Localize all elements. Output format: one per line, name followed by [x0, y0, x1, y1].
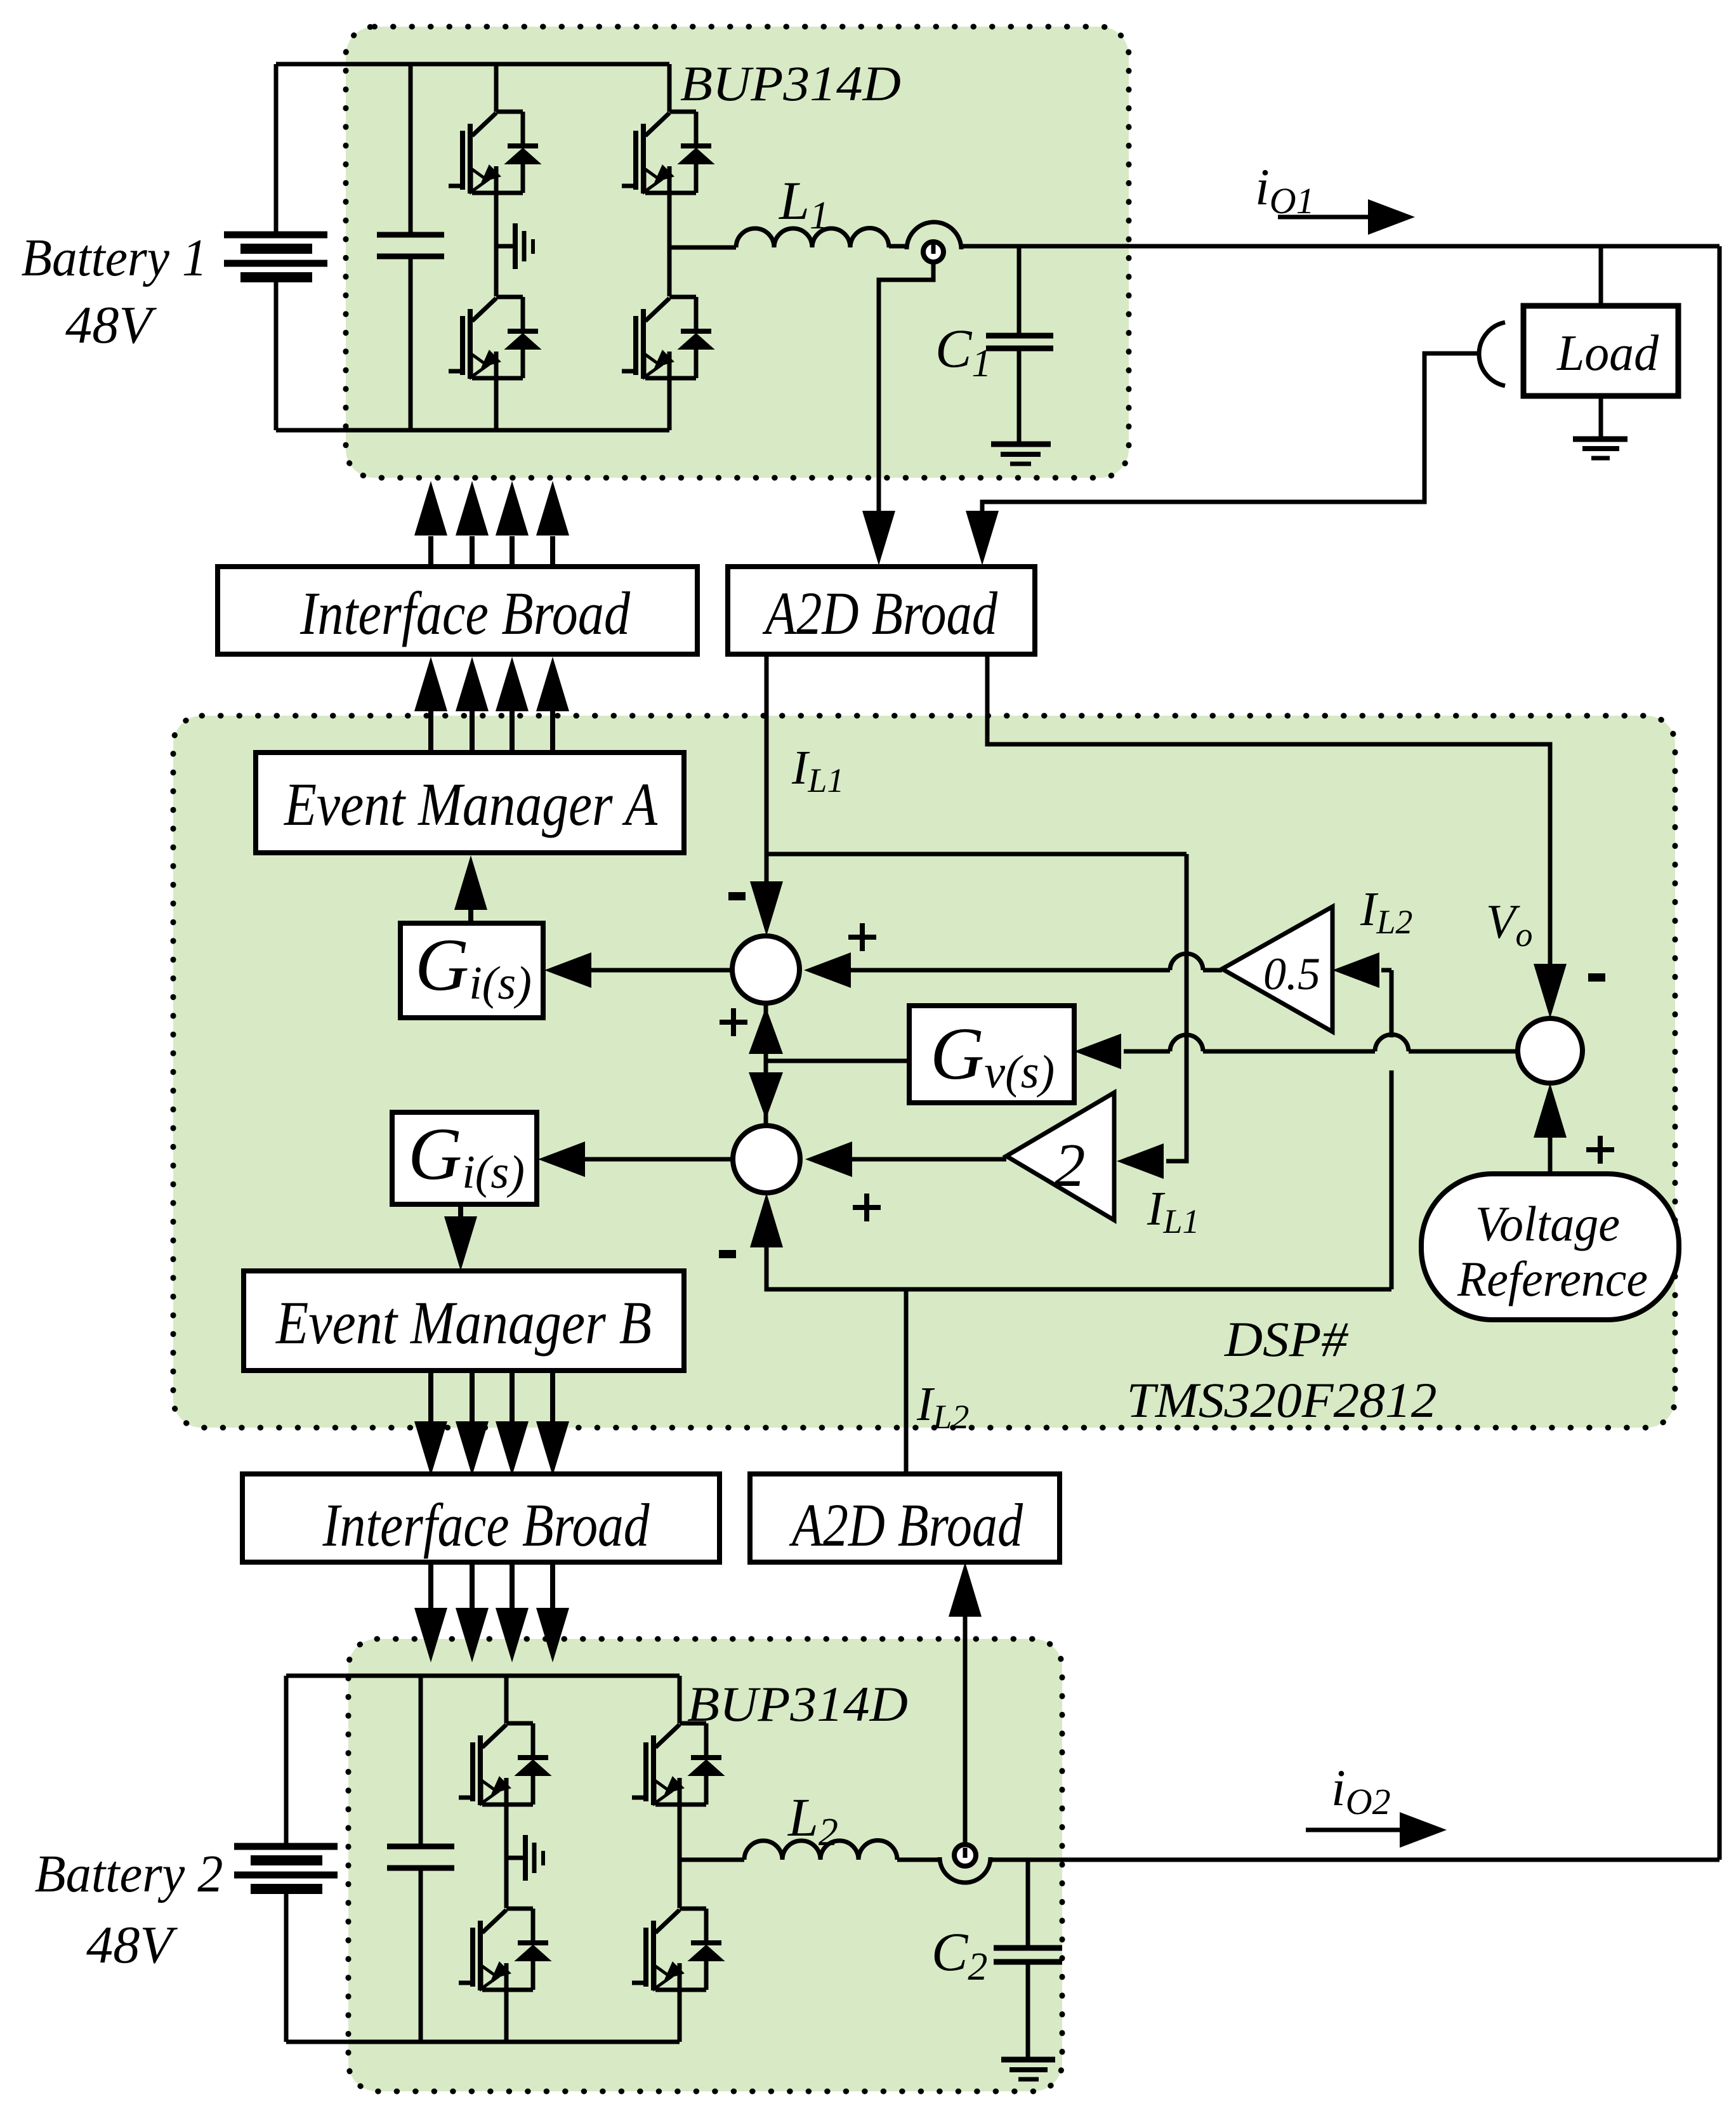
A2D board 2 — [750, 1474, 1060, 1562]
svg-text:A2D Broad: A2D Broad — [762, 579, 998, 647]
transistor Q22 (IGBT, bottom-left) with freewheel diode — [459, 1909, 550, 1990]
sign plus at summing junction 1 bottom — [720, 1008, 747, 1036]
gain block 0.5 — [1222, 907, 1332, 1032]
wire IL1 from A2D board 1 into DSP — [765, 654, 769, 884]
current sensor CS1 — [889, 244, 907, 249]
svg-text:BUP314D: BUP314D — [687, 1676, 908, 1732]
gain block 2 — [1006, 1093, 1114, 1220]
transistor Q13 (IGBT, top-right) with freewheel diode — [622, 112, 713, 194]
arrow iO2 — [1306, 1828, 1400, 1832]
svg-text:2: 2 — [1055, 1131, 1086, 1200]
wire gain 0.5 output to summing junction 1 (with jump) — [851, 968, 1222, 973]
wire right edge (load return) — [1718, 246, 1722, 1860]
dc-link capacitor converter 2 — [387, 1676, 454, 2042]
arrow Gi(s) lower to event manager B — [458, 1204, 463, 1234]
wire voltage reference to summing junction 3 — [1548, 1136, 1553, 1174]
arrow Gi(s) upper to event manager A — [468, 895, 473, 923]
ground (bridge midpoint) converter 2 — [506, 1835, 543, 1881]
ground under C2 — [1001, 2060, 1055, 2079]
DSP dashed module box — [173, 716, 1675, 1428]
ground under C1 — [991, 444, 1051, 464]
summing junction 2 (current loop 2) — [733, 1126, 800, 1193]
transistor Q21 (IGBT, top-left) with freewheel diode — [459, 1723, 550, 1805]
voltage reference stadium — [1421, 1174, 1679, 1320]
wire IL2 from A2D board 2 — [904, 1289, 909, 1474]
arrow iO1 — [1278, 215, 1372, 220]
svg-text:48V: 48V — [65, 296, 157, 355]
inductor L1 — [669, 246, 736, 250]
arrows interface board 1 to converter 1 — [414, 481, 569, 567]
wire converter 1 output rail — [961, 244, 1720, 249]
interface board 1 — [218, 567, 697, 654]
dc-link capacitor converter 1 — [377, 64, 444, 430]
wire gain 2 output to summing junction 2 — [852, 1157, 1006, 1162]
wire IL2 bus (bottom) — [766, 1209, 1391, 1289]
sign minus at summing junction 2 bottom — [719, 1250, 736, 1258]
ground under load — [1573, 439, 1628, 458]
svg-text:Reference: Reference — [1457, 1251, 1648, 1306]
svg-text:48V: 48V — [86, 1916, 178, 1975]
wire left leg converter 1 — [494, 64, 499, 430]
svg-text:Load: Load — [1556, 326, 1659, 381]
summing junction 3 (voltage error) — [1518, 1018, 1582, 1083]
svg-text:Voltage: Voltage — [1475, 1196, 1620, 1251]
sign minus at summing junction 1 top — [728, 892, 746, 900]
svg-text:TMS320F2812: TMS320F2812 — [1127, 1372, 1437, 1428]
transistor Q14 (IGBT, bottom-right) with freewheel diode — [622, 297, 713, 379]
controller Gv(s) box — [909, 1006, 1074, 1103]
current sensor CS2 — [897, 1858, 940, 1862]
ground (bridge midpoint) converter 1 — [496, 223, 533, 269]
transistor Q11 (IGBT, top-left) with freewheel diode — [449, 112, 540, 194]
sign plus at summing junction 2 right — [853, 1194, 881, 1221]
wire error to Gv(s) (with jumps) — [1124, 1049, 1518, 1054]
load box — [1523, 306, 1678, 396]
voltage probe hook at load — [1479, 322, 1505, 386]
controller Gi(s) upper box — [400, 923, 543, 1018]
event manager B box — [244, 1271, 684, 1371]
inductor L2 — [680, 1858, 744, 1862]
wire summing junction 1 output to Gi(s) upper — [590, 968, 732, 973]
transistor Q12 (IGBT, bottom-left) with freewheel diode — [449, 297, 540, 379]
wire converter 1 DC+ top rail — [276, 62, 669, 67]
event manager A box — [256, 753, 684, 853]
converter 1 dashed module box (BUP314D) — [346, 27, 1129, 478]
svg-text:Event Manager B: Event Manager B — [275, 1289, 652, 1357]
converter 2 dashed module box (BUP314D) — [348, 1639, 1062, 2091]
svg-text:Event Manager A: Event Manager A — [283, 770, 657, 838]
sign plus at voltage reference input — [1586, 1136, 1614, 1164]
wire CS2 to A2D board 2 (IL2 measurement) — [963, 1617, 968, 1845]
sign plus at summing junction 1 right — [848, 923, 876, 951]
svg-text:BUP314D: BUP314D — [680, 56, 901, 111]
wire Vo from A2D board 1 to error junction — [987, 654, 1550, 966]
svg-text:Interface Broad: Interface Broad — [299, 579, 631, 647]
wire Gv(s) output to both current summing junctions — [766, 1059, 909, 1063]
wire CS1 to A2D board 1 (IL1 measurement) — [879, 262, 933, 514]
capacitor C1 — [1017, 246, 1022, 333]
transistor Q24 (IGBT, bottom-right) with freewheel diode — [632, 1909, 723, 1990]
capacitor C2 — [1026, 1860, 1030, 1945]
A2D board 1 — [728, 567, 1035, 654]
wire right leg converter 2 — [678, 1676, 682, 2042]
controller Gi(s) lower box — [392, 1112, 537, 1204]
wire load to output rail — [1599, 246, 1603, 306]
wire Vo sense to A2D board 1 — [982, 353, 1478, 514]
arrows event manager A to interface board 1 — [414, 657, 569, 753]
svg-text:Battery 2: Battery 2 — [35, 1845, 223, 1904]
transistor Q23 (IGBT, top-right) with freewheel diode — [632, 1723, 723, 1805]
svg-text:Battery 1: Battery 1 — [22, 228, 207, 287]
svg-text:0.5: 0.5 — [1263, 949, 1320, 999]
wire IL2 feed to gain 0.5 — [1381, 968, 1391, 973]
wire IL1 branch down to gain 2 — [1166, 854, 1187, 1161]
wire converter 2 output rail — [990, 1858, 1720, 1862]
arrows event manager B to interface board 2 — [414, 1371, 569, 1476]
arrows interface board 2 to converter 2 — [414, 1562, 569, 1662]
svg-text:Interface Broad: Interface Broad — [322, 1491, 650, 1559]
node junction IL1 branch — [766, 852, 1187, 857]
summing junction 1 (current loop 1) — [732, 936, 799, 1003]
wire converter 2 DC- bottom rail — [286, 2040, 680, 2044]
wire summing junction 2 output to Gi(s) lower — [584, 1157, 733, 1162]
wire left leg converter 2 — [504, 1676, 509, 2042]
wire converter 1 DC- bottom rail — [276, 428, 669, 433]
sign minus at error junction — [1588, 973, 1605, 982]
wire right leg converter 1 — [667, 64, 672, 430]
wire converter 2 DC+ top rail — [286, 1674, 680, 1678]
svg-text:A2D Broad: A2D Broad — [789, 1491, 1023, 1559]
svg-text:DSP#: DSP# — [1224, 1312, 1349, 1367]
wire load to ground — [1599, 396, 1603, 438]
interface board 2 — [242, 1474, 720, 1562]
battery 1 symbol plates and leads — [224, 64, 327, 430]
battery 2 symbol plates and leads — [234, 1676, 338, 2042]
